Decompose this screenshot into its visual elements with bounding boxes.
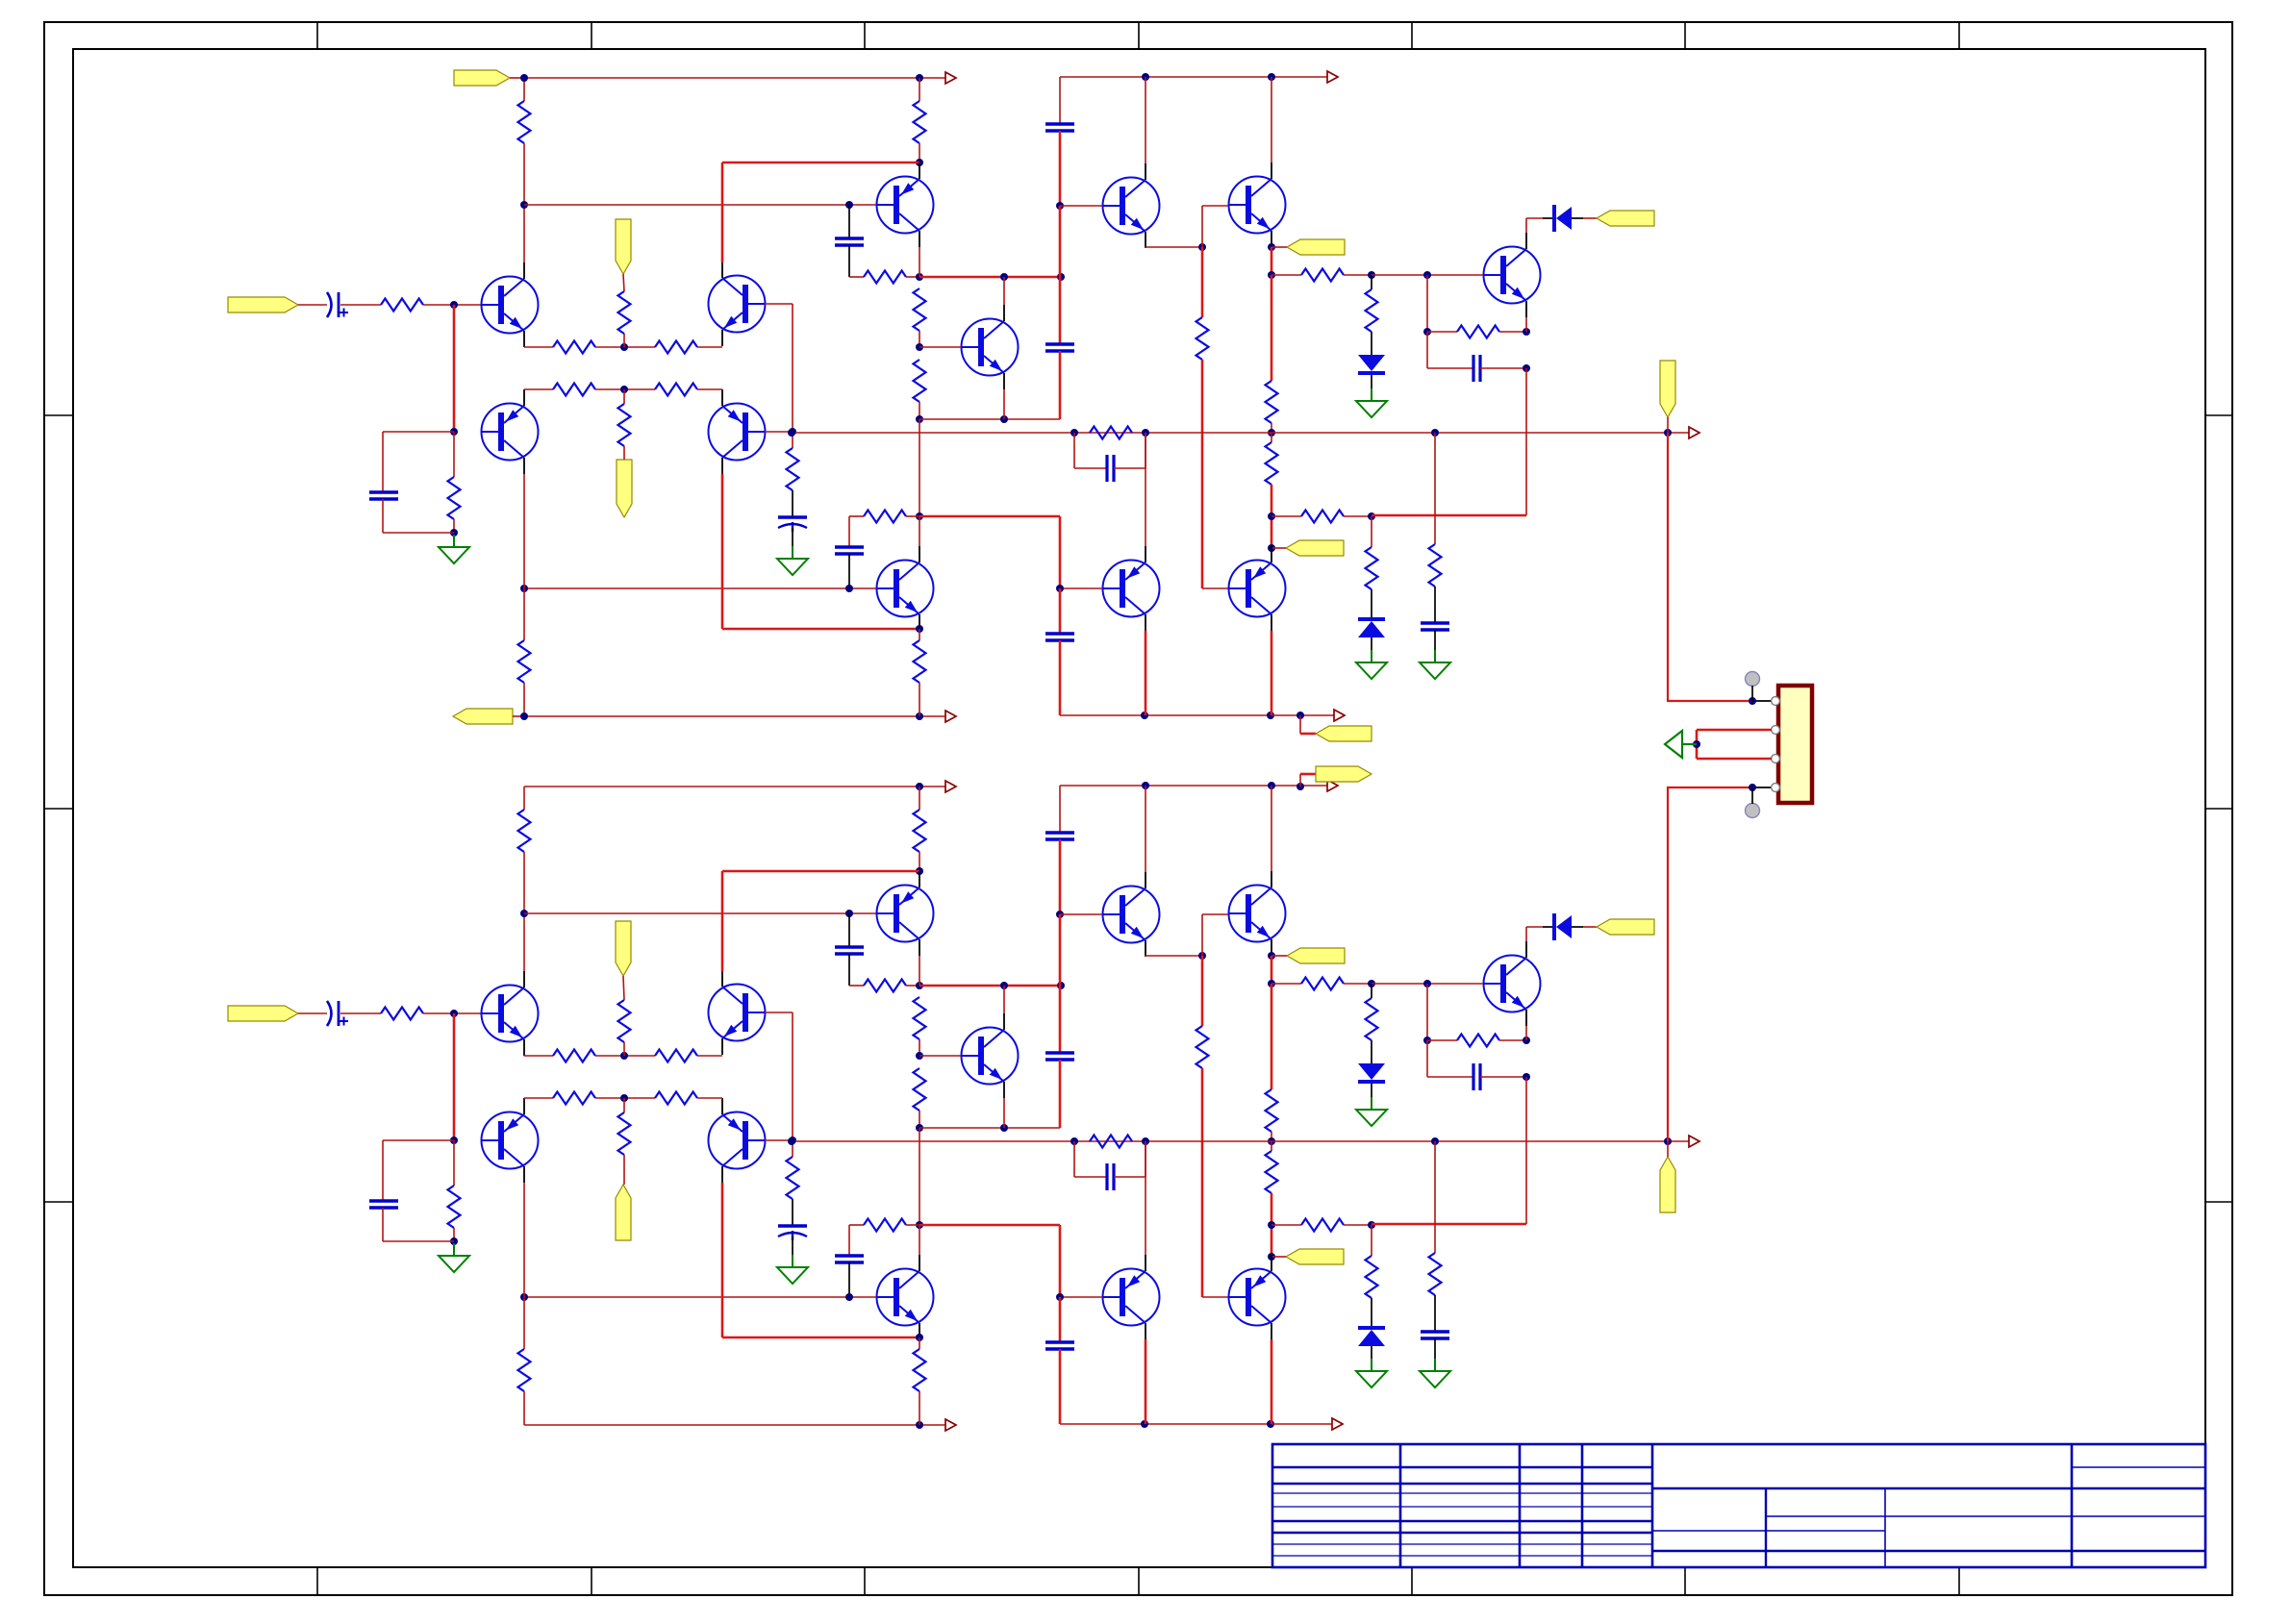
border zone tick top 6 — [1684, 22, 1686, 49]
wire R27 to rail ch2 — [523, 1391, 525, 1425]
wire R23 to Q8 emitter ch1 — [1499, 331, 1526, 333]
title block row h3 — [1272, 1492, 1652, 1494]
capacitor C11 ch2 — [1045, 1342, 1074, 1349]
wire Q7 emitter down ch1 — [1003, 389, 1005, 419]
resistor R24 (feedback) ch1 — [1090, 427, 1132, 439]
wire to R13 ch2 — [849, 985, 864, 987]
junction emitter row 2 ch1 — [620, 386, 628, 393]
wire R26 to node ch1 — [906, 515, 919, 517]
wire to Q7 base ch1 — [919, 346, 961, 348]
junction rail port tap ch2 — [1297, 783, 1304, 790]
wire C7 to right ch2 — [1480, 1076, 1526, 1078]
border zone tick bottom 6 — [1684, 1567, 1686, 1595]
wire Q7 emitter down ch2 — [1003, 1098, 1005, 1128]
resistor R19 ch2 — [1301, 978, 1344, 990]
resistor R22 ch2 — [1366, 1256, 1378, 1298]
resistor R25 (zobel) ch2 — [1429, 1253, 1442, 1295]
wire V+ port to rail ch1 — [510, 77, 524, 79]
wire to Q4 emitter ch2 — [697, 1097, 722, 1099]
wire D3 to port ch1 — [1583, 217, 1597, 219]
junction output to connector ch2 — [1664, 1137, 1672, 1145]
wire to Q3 emitter ch1 — [697, 346, 722, 348]
ground bias lower ch1 — [1356, 650, 1387, 679]
junction Q12 emitter ch1 — [916, 625, 923, 633]
transistor Q10 ch1 — [1103, 561, 1160, 617]
wire to Q12 emitter ch1 — [722, 628, 919, 631]
wire output to R25 ch2 — [1434, 1141, 1436, 1253]
resistor R20 ch1 — [1301, 511, 1344, 523]
wire down ch1 — [1271, 247, 1273, 275]
wire output to R18 ch1 — [1271, 433, 1272, 442]
wire to Q7 base ch2 — [919, 1055, 961, 1057]
wire to R12 ch1 — [792, 432, 793, 448]
resistor R7 (tail) ch1 — [618, 291, 631, 334]
wire to Q12 collector ch1 — [919, 516, 920, 546]
wire Q10 emitter to rail ch2 — [1145, 1339, 1147, 1424]
resistor R14 ch2 — [914, 997, 926, 1039]
wire R17 to output node ch2 — [1271, 1132, 1272, 1141]
transistor Q9 ch1 — [1229, 177, 1286, 234]
title block row h2 — [1272, 1483, 1652, 1485]
wire Q12 collector to C11 column ch2 — [919, 1224, 1060, 1227]
transistor Q11 ch1 — [1229, 561, 1286, 617]
border zone tick bottom 2 — [591, 1567, 592, 1595]
transistor Q6 ch1 — [1103, 178, 1160, 235]
resistor R11 (bias) ch2 — [448, 1186, 461, 1228]
off-sheet connector arrow V- rail B ch2 — [1332, 1418, 1343, 1430]
junction bias chain top ch1 — [1368, 271, 1375, 279]
wire rail to R2 ch1 — [919, 78, 920, 101]
lead C3 to ground ch1 — [792, 528, 793, 546]
junction zobel ch1 — [1431, 429, 1439, 437]
ground feedback ch2 — [777, 1255, 808, 1284]
capacitor C10 ch2 — [835, 1256, 864, 1262]
lead D3 ch1 — [1543, 217, 1554, 219]
resistor R10 (input series) ch2 — [381, 1008, 423, 1020]
resistor R5 (Q2 emitter) ch2 — [553, 1092, 595, 1105]
wire Q4 base ch2 — [765, 1139, 793, 1141]
junction port node ch2 — [1268, 952, 1275, 960]
resistor R9 ch1 — [914, 640, 926, 683]
junction rail A- / R9 ch2 — [916, 1421, 923, 1429]
lead C9 to ground ch2 — [1434, 1338, 1436, 1359]
junction Q7 collector node ch2 — [1000, 982, 1008, 989]
transistor Q5 ch2 — [877, 886, 934, 942]
wire R8 to port ch2 — [623, 1155, 625, 1185]
wire Q3 collector to Q5 collector ch1 — [722, 162, 919, 164]
junction bias chain bottom ch2 — [1368, 1221, 1375, 1229]
resistor R13 ch2 — [864, 980, 906, 992]
lead D2 to ground ch2 — [1371, 1346, 1372, 1359]
transistor Q8 ch1 — [1484, 247, 1541, 304]
off-sheet connector arrow V+ rail B ch2 — [1327, 780, 1338, 791]
wire to R20 ch2 — [1271, 1224, 1301, 1226]
wire to R12 ch2 — [792, 1140, 793, 1157]
wire Q3 base to Q4 base ch2 — [792, 1012, 793, 1140]
lead D2 to ground ch1 — [1371, 637, 1372, 650]
wire to C7 ch1 — [1427, 367, 1473, 369]
border zone tick bottom 7 — [1958, 1567, 1960, 1595]
wire to R27 ch2 — [523, 1297, 525, 1349]
wire C8 right ch1 — [1114, 467, 1145, 469]
wire output ch1 riser — [1668, 433, 1752, 701]
junction Q12 collector node ch2 — [916, 1221, 923, 1229]
junction bias bottom ch1 — [1268, 512, 1275, 520]
wire R10 to Q1 base ch1 — [423, 304, 481, 306]
junction RC left ch1 — [1423, 328, 1431, 336]
resistor R15 ch1 — [914, 360, 926, 402]
transistor Q7 ch1 — [962, 319, 1019, 376]
wire bias loop left lower ch1 — [382, 499, 384, 533]
wire to R20 ch1 — [1271, 515, 1301, 517]
wire R19 to bias node ch2 — [1344, 983, 1372, 985]
border zone tick right 2 — [2205, 808, 2232, 810]
wire Q4 collector drop ch1 — [721, 474, 724, 629]
wire node down to R16 ch1 — [1201, 247, 1204, 317]
resistor R21 ch1 — [1366, 289, 1378, 332]
ground zobel ch2 — [1420, 1359, 1450, 1387]
wire column to Q10 collector node ch1 — [919, 419, 920, 516]
resistor R26 ch1 — [864, 511, 906, 523]
lead R12 to C3 ch1 — [792, 490, 793, 517]
title block divider v3 — [1581, 1444, 1584, 1567]
ground input bias ch1 — [439, 535, 469, 563]
wire lower base line ch1 — [524, 587, 876, 589]
wire Q4 collector drop ch2 — [721, 1183, 724, 1337]
resistor R17 ch2 — [1266, 1089, 1278, 1132]
wire C1 to R10 ch2 — [340, 1012, 381, 1014]
junction Q4 base node ch2 — [789, 1137, 796, 1144]
wire pin2 to pin3 — [1696, 730, 1699, 759]
wire emitter row 2 ch1 — [595, 388, 655, 390]
resistor R23 ch2 — [1457, 1035, 1499, 1047]
wire rail B- extension ch1 — [1271, 714, 1334, 716]
wire R14 to Q7 base node ch1 — [919, 331, 920, 347]
wire RC loop left ch1 — [1426, 332, 1428, 368]
diode D2 ch1 — [1358, 617, 1385, 621]
wire Q1 emitter ch1 — [524, 346, 553, 348]
junction fb right ch2 — [1142, 1137, 1149, 1145]
border zone tick left 2 — [44, 808, 73, 810]
port V+ supply ch2 — [1316, 766, 1372, 782]
wire to R11 ch1 — [453, 432, 455, 477]
connector J1 (speaker) body — [1778, 686, 1812, 803]
wire R18 to Q11 collector ch2 — [1271, 1193, 1273, 1255]
wire to R11 ch2 — [453, 1140, 455, 1186]
junction RC right ch1 — [1523, 328, 1530, 336]
junction Q12 collector node ch1 — [916, 512, 923, 520]
resistor R12 (feedback) ch2 — [787, 1157, 799, 1199]
wire row 2 to R8 ch1 — [623, 389, 625, 404]
wire to port ch1 — [1271, 246, 1287, 248]
wire down to C10 ch1 — [848, 516, 850, 547]
capacitor C8 (feedback) ch2 — [1107, 1163, 1114, 1190]
wire R1 to Q1 collector ch1 — [523, 143, 525, 262]
wire elbow to port ch2 — [1300, 773, 1316, 776]
junction port node ch1 — [1268, 243, 1275, 251]
capacitor C7 ch2 — [1473, 1063, 1480, 1090]
transistor Q9 ch2 — [1229, 886, 1286, 942]
wire column mid ch1 — [1059, 206, 1062, 344]
wire Q5 emitter down ch2 — [919, 956, 920, 986]
port V+ supply ch1 — [454, 70, 510, 86]
wire emitter row 1 ch1 — [595, 346, 655, 348]
off-sheet connector arrow output ch1 — [1689, 427, 1699, 438]
wire down to bias row ch1 — [1525, 368, 1527, 515]
capacitor C2 (bias) ch2 — [369, 1201, 398, 1208]
wire R8 to port ch1 — [623, 446, 625, 460]
resistor R23 ch1 — [1457, 326, 1499, 338]
wire Q8 emitter down ch1 — [1525, 317, 1527, 332]
title block divider v1 — [1399, 1444, 1402, 1567]
wire bias loop top ch1 — [383, 431, 454, 433]
wire R2 to node ch1 — [919, 143, 920, 162]
lead connector pin 4 — [1752, 787, 1772, 788]
wire Q8 collector up ch1 — [1525, 218, 1527, 233]
wire R15 to row ch1 — [919, 402, 920, 419]
wire C7 to right ch1 — [1480, 367, 1526, 369]
transistor Q7 ch2 — [962, 1028, 1019, 1085]
wire to Q3 emitter ch2 — [697, 1055, 722, 1057]
wire R19 to bias node ch1 — [1344, 274, 1372, 276]
wire pin2 left — [1697, 729, 1772, 732]
resistor R12 (feedback) ch1 — [787, 448, 799, 490]
lead R21 to D1 ch2 — [1371, 1040, 1372, 1063]
wire C11 column ch2 — [1059, 1297, 1062, 1342]
junction Q4 base / output ch1 — [788, 429, 795, 437]
junction C10 node ch2 — [845, 1293, 853, 1301]
title block divider v7 — [1884, 1488, 1886, 1567]
junction pin4 node — [1749, 784, 1756, 791]
capacitor C3 (feedback, polarized) ch1 — [778, 515, 807, 518]
resistor R14 ch1 — [914, 288, 926, 331]
junction Q6 base node ch2 — [1056, 911, 1064, 918]
wire RC loop left ch2 — [1426, 1040, 1428, 1077]
wire to R19 ch2 — [1271, 983, 1301, 985]
port output sense ch2 — [1660, 1157, 1675, 1212]
connector pin 1 — [1772, 697, 1780, 706]
resistor R10 (input series) ch1 — [381, 299, 423, 312]
wire to R27 ch1 — [523, 588, 525, 640]
wire bias row link ch2 — [1372, 1223, 1526, 1226]
wire port elbow ch2 — [1299, 774, 1301, 787]
wire R15 to row ch2 — [919, 1111, 920, 1128]
wire to D3 ch1 — [1526, 217, 1543, 219]
wire fb loop right ch1 — [1145, 433, 1146, 468]
wire tap down ch2 — [1426, 984, 1428, 1040]
resistor R20 ch2 — [1301, 1219, 1344, 1232]
resistor R2 (Q5 collector load) ch1 — [914, 101, 926, 143]
wire to C8 ch1 — [1074, 467, 1107, 469]
junction node 436 ch2 — [916, 1124, 923, 1132]
lead C4 to row ch2 — [848, 954, 850, 986]
lead D3 right ch1 — [1572, 217, 1583, 219]
title block outline — [1272, 1444, 2205, 1567]
wire C11 to rail ch2 — [1059, 1349, 1062, 1424]
lead R12 to C3 ch2 — [792, 1199, 793, 1226]
connector pin 2 — [1772, 726, 1780, 735]
capacitor C9 (zobel) ch1 — [1421, 623, 1449, 630]
wire R11 to ground node ch1 — [453, 519, 455, 533]
wire R7 to row 1 ch2 — [623, 1042, 625, 1056]
junction emitter row 2 ch2 — [620, 1094, 628, 1102]
title block row h6 — [1272, 1532, 1652, 1534]
title block right row c — [1767, 1515, 2205, 1517]
wire column to Q10 collector node ch2 — [919, 1128, 920, 1225]
junction bias bottom ch2 — [1268, 1221, 1275, 1229]
wire to port ch2 — [1271, 955, 1287, 957]
junction Q5 emitter node ch2 — [916, 982, 923, 989]
capacitor C4 ch1 — [835, 238, 864, 245]
resistor R18 ch1 — [1266, 442, 1278, 485]
wire bias loop left ch1 — [382, 432, 384, 492]
capacitor C1 (input, polarized) ch2 — [327, 1001, 332, 1026]
lead R25 to C9 ch2 — [1434, 1295, 1436, 1332]
resistor R5 (Q2 emitter) ch1 — [553, 384, 595, 396]
wire Q3 base ch1 — [765, 303, 793, 305]
title block row h1 — [1272, 1466, 1652, 1468]
wire output to Q10 collector ch2 — [1145, 1141, 1146, 1255]
wire to Q6 base ch2 — [1060, 913, 1102, 915]
resistor R25 (zobel) ch1 — [1429, 544, 1442, 587]
junction Q9 base feed ch2 — [1198, 952, 1206, 960]
resistor R2 (Q5 collector load) ch2 — [914, 810, 926, 852]
wire Q3 collector to Q5 collector ch2 — [722, 870, 919, 873]
wire emitter row 2 ch2 — [595, 1097, 655, 1099]
wire port to R7 ch2 — [623, 976, 624, 1000]
junction output/R17 ch2 — [1268, 1137, 1275, 1145]
junction rail B / Q8 collector ch1 — [1268, 73, 1275, 81]
wire to Q11 base ch2 — [1202, 1296, 1228, 1298]
wire to Q12 collector ch2 — [919, 1225, 920, 1255]
capacitor C10 ch1 — [835, 547, 864, 554]
title block divider v5 — [2071, 1444, 2074, 1567]
capacitor C11 ch1 — [1045, 634, 1074, 640]
wire down to C10 ch2 — [848, 1225, 850, 1256]
wire V- port to rail ch1 — [513, 715, 524, 717]
wire Q1 base to Q2 base ch2 — [453, 1013, 456, 1140]
transistor Q3 ch2 — [709, 985, 766, 1041]
junction input node ch1 — [450, 301, 458, 309]
wire Q6 emitter ch1 — [1145, 247, 1146, 248]
title block divider v6 — [1765, 1488, 1767, 1567]
junction Q5 collector node ch2 — [916, 867, 923, 875]
wire Q6 emitter to node ch1 — [1145, 246, 1202, 248]
junction rail B- port tap ch1 — [1297, 712, 1304, 719]
resistor R7 (tail) ch2 — [618, 1000, 631, 1042]
wire to Q12 emitter ch2 — [722, 1337, 919, 1339]
junction emitter row 1 ch2 — [620, 1052, 628, 1060]
lead to R21 ch1 — [1371, 275, 1372, 289]
transistor Q1 ch2 — [482, 986, 539, 1042]
wire output to R25 ch1 — [1434, 433, 1436, 544]
wire C8 right ch2 — [1114, 1176, 1145, 1178]
wire R26 to node ch2 — [906, 1224, 919, 1226]
mounting pad upper — [1746, 672, 1760, 687]
lead pad to pin4 node — [1751, 787, 1753, 804]
port drive - ch2 — [1286, 1249, 1344, 1264]
wire R13 to node ch1 — [906, 276, 919, 278]
junction Q5 base node ch2 — [845, 910, 853, 917]
wire Q3 collector riser ch1 — [721, 162, 724, 262]
wire C11 column upper ch1 — [1059, 516, 1062, 588]
wire bias loop bottom ch1 — [383, 532, 454, 534]
wire to R26 ch1 — [849, 515, 864, 517]
transistor Q12 ch1 — [877, 561, 934, 617]
junction rail A- / R9 ch1 — [916, 712, 923, 720]
port drive + ch1 — [1287, 239, 1345, 255]
wire D3 to port ch2 — [1583, 926, 1597, 928]
border zone tick left 1 — [44, 414, 73, 416]
junction V+ rail / R1 ch1 — [520, 74, 528, 82]
junction bias top ch1 — [1268, 271, 1275, 279]
junction Q2 base node ch1 — [450, 428, 458, 436]
wire row 288 ch2 — [919, 985, 1061, 987]
junction node 436 ch1 — [916, 415, 923, 423]
wire V+ rail B ch2 — [1060, 785, 1327, 787]
junction Q4 base / output ch2 — [788, 1137, 795, 1145]
junction Q7 emitter node ch2 — [1000, 1124, 1008, 1132]
ground bias upper ch1 — [1356, 388, 1387, 417]
border zone tick top 2 — [591, 22, 592, 49]
wire R13 to node ch2 — [906, 985, 919, 987]
wire fb loop left ch2 — [1073, 1141, 1075, 1177]
junction column node ch2 — [1057, 982, 1065, 989]
resistor R13 ch1 — [864, 271, 906, 284]
junction port node low ch1 — [1268, 544, 1275, 552]
junction rail B / Q6 collector ch1 — [1142, 73, 1149, 81]
wire to C7 ch2 — [1427, 1076, 1473, 1078]
lead connector pin 1 — [1752, 700, 1772, 702]
resistor R26 ch2 — [864, 1219, 906, 1232]
wire V- rail B ch1 — [1060, 714, 1271, 716]
resistor R3 (Q1 emitter) ch1 — [553, 341, 595, 354]
junction RC left ch2 — [1423, 1037, 1431, 1044]
ground arrow (speaker return) — [1665, 731, 1697, 758]
junction rail A / R2 ch2 — [916, 783, 923, 790]
resistor R18 ch2 — [1266, 1151, 1278, 1193]
wire to Q9 base ch1 — [1202, 205, 1228, 207]
lead C4 to row ch1 — [848, 245, 850, 277]
junction Q6 base node ch1 — [1056, 202, 1064, 210]
wire to R19 ch1 — [1271, 274, 1301, 276]
wire rail to R2 ch2 — [919, 787, 920, 810]
transistor Q8 ch2 — [1484, 956, 1541, 1012]
junction zobel ch2 — [1431, 1137, 1439, 1145]
wire R18 to Q11 collector ch1 — [1271, 485, 1273, 546]
ground bias lower ch2 — [1356, 1359, 1387, 1387]
junction C11 node ch1 — [1056, 585, 1064, 592]
port output sense ch1 — [1660, 361, 1675, 417]
capacitor C2 (bias) ch1 — [369, 492, 398, 499]
junction output/R17 ch1 — [1268, 429, 1275, 437]
title block divider v4 — [1651, 1444, 1654, 1567]
resistor R4 (Q3 emitter) ch1 — [655, 341, 697, 354]
resistor R16 ch1 — [1196, 317, 1209, 360]
wire output line ch2 — [792, 1140, 1689, 1142]
resistor R17 ch1 — [1266, 381, 1278, 423]
junction C11 node ch2 — [1056, 1293, 1064, 1301]
junction Q12 emitter ch2 — [916, 1334, 923, 1341]
junction bias chain bottom ch1 — [1368, 512, 1375, 520]
wire R10 to Q1 base ch2 — [423, 1012, 481, 1014]
wire output to R18 ch2 — [1271, 1141, 1272, 1151]
title block row h4 — [1272, 1506, 1652, 1508]
border zone tick top 3 — [864, 22, 866, 49]
border zone tick top 5 — [1411, 22, 1413, 49]
transistor Q5 ch1 — [877, 177, 934, 234]
ground zobel ch1 — [1420, 650, 1450, 679]
